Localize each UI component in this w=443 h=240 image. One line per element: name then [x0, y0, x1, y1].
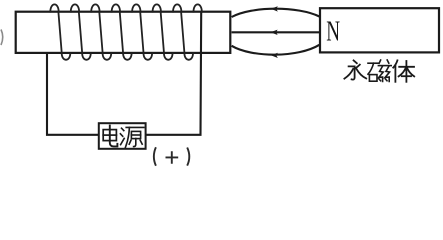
svg-text:N: N — [326, 17, 340, 48]
